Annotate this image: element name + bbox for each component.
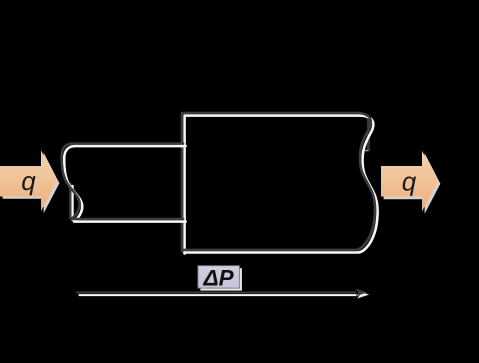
right flow arrow shadow bbox=[384, 153, 441, 214]
delta-P dimension line bbox=[76, 292, 356, 294]
large pipe (rectangle with wavy broken right end) white highlight bbox=[185, 116, 378, 253]
delta-P dimension line white highlight bbox=[79, 294, 359, 296]
svg-text:q: q bbox=[21, 166, 36, 196]
delta-P label box bbox=[198, 266, 240, 288]
small pipe straight left edge segment bbox=[71, 186, 73, 220]
delta-P label box shadow bbox=[200, 268, 242, 290]
svg-text:q: q bbox=[402, 167, 417, 197]
small pipe dark outline bbox=[62, 144, 183, 220]
large pipe faint original right edge bbox=[367, 117, 369, 150]
delta-P arrowhead shadow bbox=[357, 291, 369, 299]
left flow arrow q bbox=[0, 150, 57, 211]
svg-text:ΔP: ΔP bbox=[203, 266, 235, 291]
left flow arrow shadow bbox=[3, 153, 60, 214]
right flow arrow q bbox=[381, 151, 438, 212]
small pipe (left, with S-curve broken end) white highlight bbox=[64, 146, 185, 222]
delta-P arrowhead bbox=[356, 289, 368, 297]
large pipe bottom-left corner overshoot bbox=[183, 252, 186, 255]
large pipe dark outline bbox=[182, 113, 375, 250]
